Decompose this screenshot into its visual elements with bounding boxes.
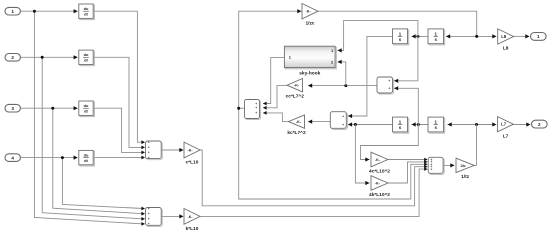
arrowhead into gain c*L10: [179, 148, 183, 152]
wire: relative sum2 to gain kc: [308, 121, 330, 123]
wire: du/dt1 out to velocity sum: [93, 11, 143, 142]
wire: In1 tap to bottom sum: [34, 11, 143, 224]
arrowhead into gain k*L10: [179, 214, 183, 218]
arrowhead into Out2: [526, 122, 530, 126]
arrowhead position sum in4: [141, 222, 145, 226]
svg-text:L8: L8: [501, 34, 507, 39]
arrowhead position sum in1: [141, 207, 145, 211]
arrowhead position sum in3: [141, 217, 145, 221]
gain cc*L7^2: [286, 79, 305, 100]
svg-text:-K-: -K-: [375, 158, 381, 162]
svg-text:1/tz: 1/tz: [460, 164, 466, 168]
wire: du/dt3 out to velocity sum: [93, 108, 143, 152]
wire: k*L10 out to force sum: [200, 169, 425, 216]
gain 1/tz: [456, 158, 474, 180]
gain kc*L7^2: [287, 115, 306, 136]
svg-text:L7: L7: [501, 122, 507, 127]
sum block positions: [146, 207, 163, 227]
arrowhead into gain cc: [308, 84, 312, 88]
svg-text:du: du: [84, 103, 89, 108]
arrowhead velocity sum in4: [141, 156, 145, 160]
svg-text:du: du: [84, 6, 89, 11]
arrowhead relative sum1 in1: [394, 79, 398, 83]
wire: branch to sky-hook in2: [338, 62, 346, 86]
wire: In4 tap to bottom sum: [62, 158, 143, 209]
input port 3: [5, 104, 20, 112]
wire: to integrator 1s top-right input: [446, 35, 477, 37]
junction In3 tap: [51, 107, 54, 110]
wire: L7 to Out2: [513, 124, 530, 126]
arrowhead into gain 4k: [365, 181, 369, 185]
svg-text:1/zc: 1/zc: [305, 21, 314, 27]
svg-text:+: +: [388, 79, 390, 83]
arrowhead accel sum in2: [263, 106, 267, 110]
svg-text:-K-: -K-: [188, 148, 194, 152]
wire: top velocity to sky-hook in1: [338, 21, 418, 51]
svg-text:L8: L8: [503, 46, 509, 52]
sum block relative 2: [330, 112, 347, 130]
svg-text:kc*L7^2: kc*L7^2: [287, 130, 306, 136]
svg-text:-K-: -K-: [188, 215, 194, 219]
arrowhead into gain 1/zc: [297, 9, 301, 13]
wire: In1 to du/dt 1: [21, 10, 77, 12]
wire: top position to relative sum2 in1: [348, 36, 393, 116]
wire: mid velocity to gain 4c: [361, 125, 419, 160]
integrator 1/s top B: [428, 29, 445, 45]
sum block velocities: [146, 141, 163, 160]
svg-text:3: 3: [11, 106, 14, 111]
wire: 1/tz out to mid chain: [474, 125, 477, 166]
wire: force sum to gain 1/tz: [443, 164, 454, 166]
wire: In3 tap to bottom sum: [53, 108, 143, 214]
svg-text:-K-: -K-: [306, 10, 312, 14]
wire: mid position to relative sum2 in2: [348, 124, 393, 126]
gain 4c*L10^2: [369, 152, 390, 174]
wire: mid position to gain 4k: [355, 125, 369, 184]
gain L8: [498, 29, 514, 52]
junction mid position: [354, 123, 357, 126]
svg-text:1: 1: [537, 34, 540, 39]
arrowhead sky-hook in2: [338, 60, 342, 64]
arrowhead into Out1: [525, 34, 529, 38]
wire: accel sum branch to force sum: [239, 108, 426, 199]
gain L7: [498, 117, 514, 140]
wire: sky-hook out to accel sum in1: [263, 57, 284, 103]
junction mid velocity: [417, 123, 420, 126]
svg-text:+: +: [148, 222, 150, 226]
wire: 4k out to force sum: [388, 162, 425, 183]
junction mid chain: [475, 123, 478, 126]
junction In2 tap: [41, 56, 44, 59]
junction In4 tap: [61, 156, 64, 159]
wire: kc out to accel sum in3: [263, 113, 289, 122]
svg-text:-K-: -K-: [296, 120, 302, 124]
svg-text:4: 4: [11, 155, 14, 160]
arrowhead position sum in2: [141, 212, 145, 216]
svg-text:-K-: -K-: [294, 84, 300, 88]
svg-text:+: +: [255, 106, 257, 110]
wire: to integrator 1s mid-right input: [448, 124, 477, 126]
arrowhead velocity sum in3: [141, 151, 145, 155]
svg-text:4c*L10^2: 4c*L10^2: [369, 168, 390, 174]
svg-text:cc*L7^2: cc*L7^2: [286, 94, 305, 100]
svg-text:1: 1: [11, 9, 14, 14]
arrowhead into mid integrator A: [412, 122, 416, 126]
junction top velocity: [416, 35, 419, 38]
wire: velocity sum to gain c*L10: [161, 149, 179, 151]
wire: In3 to du/dt 3: [21, 107, 77, 109]
wire: du/dt4 out to velocity sum: [93, 157, 143, 159]
arrowhead into gain 1/tz: [450, 163, 454, 167]
derivative block du/dt 1: [79, 4, 95, 20]
junction top chain: [475, 35, 478, 38]
wire: accel sum output: [239, 107, 245, 109]
sum block relative 1: [377, 77, 394, 94]
svg-text:+: +: [388, 87, 390, 91]
arrowhead into du/dt 4: [74, 156, 78, 160]
arrowhead sky-hook in1: [338, 48, 342, 52]
svg-text:4k*L10^2: 4k*L10^2: [369, 192, 390, 198]
junction to sky-hook in2: [344, 84, 347, 87]
svg-text:+: +: [148, 217, 150, 221]
arrowhead into gain kc: [308, 120, 312, 124]
wire: In2 to du/dt 2: [21, 56, 77, 58]
arrowhead force sum in3: [424, 163, 427, 167]
svg-text:+: +: [148, 146, 150, 150]
arrowhead into gain 4c: [365, 157, 369, 161]
arrowhead force sum in2: [424, 160, 427, 164]
svg-text:-K-: -K-: [375, 181, 381, 185]
arrowhead into du/dt 3: [74, 106, 78, 110]
junction accel sum output: [237, 107, 240, 110]
arrowhead into top integrator B: [446, 34, 450, 38]
wire: to gain L8: [477, 35, 493, 37]
integrator 1/s mid A: [393, 117, 409, 133]
sum block forces: [428, 157, 444, 174]
gain 4k*L10^2: [369, 176, 390, 198]
svg-text:2: 2: [11, 55, 14, 60]
svg-text:du: du: [84, 153, 89, 158]
derivative block du/dt 3: [79, 101, 95, 117]
wire: cc out to accel sum in2: [263, 86, 287, 108]
wire: 4c out to force sum: [388, 159, 425, 161]
svg-text:L7: L7: [503, 133, 509, 139]
integrator 1/s mid B: [428, 117, 445, 133]
integrator 1/s top A: [393, 29, 409, 45]
arrowhead into top integrator A: [412, 34, 416, 38]
subsystem sky-hook: [284, 46, 336, 76]
gain c*L10: [184, 142, 200, 165]
junction In1 tap: [33, 10, 36, 13]
derivative block du/dt 4: [79, 150, 95, 166]
arrowhead into gain L8: [492, 34, 496, 38]
wire: In2 tap to bottom sum: [42, 57, 143, 219]
arrowhead accel sum in3: [263, 111, 267, 115]
wire: to gain L7: [477, 124, 494, 126]
svg-text:+: +: [148, 212, 150, 216]
wire: mid velocity to relative sum in2: [394, 88, 418, 124]
arrowhead force sum in4: [424, 165, 427, 169]
svg-text:+: +: [148, 207, 150, 211]
arrowhead into du/dt 1: [74, 9, 78, 13]
arrowhead accel sum in1: [263, 102, 267, 106]
wire: du/dt2 out to velocity sum: [93, 57, 143, 147]
arrowhead relative sum2 in2: [348, 122, 352, 126]
wire: c*L10 out to force sum: [200, 150, 425, 206]
wire: relative sum1 to gain cc: [308, 85, 377, 87]
arrowhead relative sum2 in1: [348, 114, 352, 118]
svg-text:2: 2: [538, 122, 541, 127]
svg-text:+: +: [342, 114, 344, 118]
wire: mid integrators link: [412, 124, 429, 126]
wire: top velocity to relative sum in1: [394, 36, 418, 80]
arrowhead force sum in1: [424, 158, 427, 162]
svg-text:+: +: [148, 156, 150, 160]
input port 1: [5, 7, 20, 15]
svg-text:du: du: [84, 52, 89, 57]
svg-text:+: +: [148, 141, 150, 145]
arrowhead force sum in5: [424, 167, 427, 171]
arrowhead into du/dt 2: [74, 55, 78, 59]
svg-text:+: +: [148, 151, 150, 155]
arrowhead velocity sum in2: [141, 146, 145, 150]
wire: position sum to gain k*L10: [161, 215, 179, 217]
svg-text:k*L10: k*L10: [186, 226, 199, 232]
arrowhead into mid integrator B: [448, 122, 452, 126]
arrowhead velocity sum in1: [141, 140, 145, 144]
svg-text:+: +: [430, 167, 432, 171]
wire: accel sum to gain 1/zc: [239, 11, 298, 108]
arrowhead into gain L7: [492, 122, 496, 126]
input port 2: [5, 54, 20, 62]
input port 4: [5, 154, 20, 162]
svg-text:c*L10: c*L10: [186, 160, 199, 166]
wire: top integrators link: [412, 35, 429, 37]
svg-text:sky-hook: sky-hook: [299, 70, 320, 76]
wire: L8 to Out1: [514, 35, 529, 37]
gain k*L10: [184, 209, 200, 232]
output port 1: [531, 33, 547, 41]
svg-text:+: +: [342, 123, 344, 127]
arrowhead relative sum1 in2: [394, 86, 398, 90]
derivative block du/dt 2: [79, 50, 95, 66]
wire: In4 to du/dt 4: [21, 157, 77, 159]
svg-text:+: +: [255, 111, 257, 115]
sum block accelerations: [245, 100, 261, 120]
svg-text:1/tz: 1/tz: [461, 174, 470, 180]
gain 1/zc: [302, 4, 318, 27]
output port 2: [532, 120, 548, 128]
wire: 1/zc out to top integrator chain: [318, 11, 477, 36]
